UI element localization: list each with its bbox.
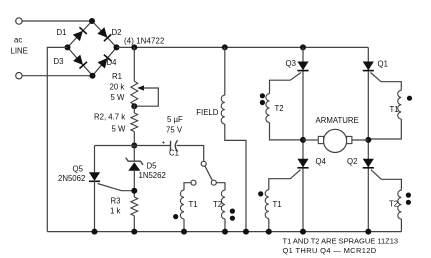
label R2 (94, 113, 126, 134)
switch common terminal (201, 161, 206, 166)
switch throw right (211, 180, 216, 185)
SCR Q3 (297, 62, 308, 71)
phasing dot T1 secondary Q4 (258, 191, 263, 196)
wire: bottom AC line to bridge bottom node (22, 75, 92, 77)
svg-text:D2: D2 (112, 28, 122, 37)
node: bridge bottom (90, 73, 96, 79)
node: bridge left (65, 44, 71, 50)
svg-text:5 W: 5 W (111, 93, 126, 102)
wire: Q4 gate (269, 170, 301, 190)
svg-text:R1: R1 (112, 72, 122, 81)
svg-text:1N5262: 1N5262 (139, 171, 166, 180)
capacitor C1 5uF 75V (162, 140, 178, 152)
wire: R3 to bus (133, 216, 135, 232)
phasing dots T2 secondary Q2 (406, 193, 411, 205)
svg-text:(4) 1N4722: (4) 1N4722 (124, 37, 165, 46)
svg-text:Q1: Q1 (378, 60, 388, 69)
wire: switch left throw to T1 primary (184, 183, 191, 190)
wire: R2 to node (133, 132, 135, 146)
wire: Q2 gate (371, 170, 401, 191)
diode D3 (73, 54, 87, 68)
svg-text:T2: T2 (389, 200, 398, 209)
wire: bottom negative bus (47, 231, 401, 233)
wire: R1 to R2 (133, 105, 135, 114)
wire: bus to R1 (133, 47, 135, 81)
diode D4 (97, 55, 111, 69)
label T2 secondary Q3 (275, 104, 284, 113)
terminal: AC line bottom (16, 73, 22, 79)
wire: Q5 cathode to bus (94, 181, 96, 232)
junction: armature left (300, 137, 306, 143)
transformer T2 primary winding (221, 190, 225, 219)
junction: bottom bus R3 (131, 229, 137, 235)
SCR Q2 (363, 159, 374, 168)
resistor R1 20k pot (131, 81, 138, 104)
field winding (221, 95, 225, 124)
wire: T1 secondary Q1 to cathode node (368, 119, 401, 139)
svg-text:Q1 THRU Q4 — MCR12D: Q1 THRU Q4 — MCR12D (283, 246, 377, 255)
wire: T2 secondary Q2 to bus (400, 219, 402, 232)
label T2 primary (213, 200, 222, 209)
switch blade (205, 166, 212, 180)
wire: T2 secondary Q3 to cathode node (270, 123, 304, 140)
wire: top positive bus (117, 46, 369, 48)
wire: T2 primary to bus (224, 219, 226, 232)
svg-text:20 k: 20 k (110, 83, 125, 92)
wire: bridge diamond (68, 21, 117, 76)
wire: Q1 gate (371, 73, 402, 91)
svg-text:2N5062: 2N5062 (58, 174, 85, 183)
note: SCR types (283, 246, 377, 255)
pot wiper arrow R1 (136, 85, 158, 106)
svg-text:D4: D4 (107, 58, 118, 67)
label D4 (107, 58, 118, 67)
node: bridge top (89, 18, 95, 24)
junction: field branch (222, 44, 228, 50)
junction: bottom bus T1 primary (181, 229, 187, 235)
svg-text:LINE: LINE (11, 47, 28, 56)
wire: switch right throw to T2 primary (217, 183, 225, 190)
label T2 secondary Q2 (389, 200, 398, 209)
svg-text:D1: D1 (57, 28, 67, 37)
label R3 (110, 197, 121, 216)
phasing dots T2 secondary Q3 (260, 93, 265, 105)
transformer T1 primary winding (180, 190, 184, 219)
diode D1 (73, 27, 87, 41)
phasing dot T1 primary (173, 214, 178, 219)
svg-text:D3: D3 (54, 57, 64, 66)
junction: Q5 gate / D5 / R3 (131, 188, 137, 194)
wire: C1 to switch common (177, 146, 204, 162)
wire: D5 anode to gate node (133, 171, 135, 197)
label Q3 (286, 59, 296, 68)
label ARMATURE (316, 116, 359, 125)
svg-text:5 W: 5 W (112, 125, 127, 134)
label D1 (57, 28, 67, 37)
svg-text:1 k: 1 k (110, 207, 121, 216)
wire: bridge left node down to bottom bus (47, 47, 67, 231)
junction: R1/R2/wiper (131, 103, 137, 109)
label R1 (110, 72, 126, 102)
svg-text:75 V: 75 V (166, 126, 183, 135)
resistor R3 1k (131, 197, 138, 216)
transformer T2 secondary (Q2) winding (398, 190, 402, 219)
transformer T1 secondary (Q1) winding (398, 90, 402, 119)
svg-text:C1: C1 (169, 149, 179, 158)
label D3 (54, 57, 64, 66)
switch throw left (191, 180, 196, 185)
svg-text:Q3: Q3 (286, 59, 296, 68)
zener diode D5 1N5262 (126, 158, 143, 171)
label Q4 (316, 157, 327, 166)
label (4) 1N4722 (124, 37, 165, 46)
wire: node to D5 cathode (133, 146, 135, 162)
svg-text:Q4: Q4 (316, 157, 327, 166)
svg-text:D5: D5 (147, 162, 158, 171)
svg-text:R3: R3 (111, 197, 121, 206)
transformer T1 secondary (Q4) winding (265, 190, 269, 219)
SCR Q5 2N5062 (89, 172, 100, 181)
label T1 primary (189, 200, 198, 209)
wire: T1 primary to bus (183, 219, 185, 232)
SCR Q1 (363, 62, 374, 71)
svg-text:T1: T1 (390, 105, 399, 114)
wire: armature right lead (352, 139, 368, 141)
wire: top AC line to bridge top node (22, 20, 92, 22)
phasing dot T1 secondary Q1 (407, 96, 412, 101)
label Q2 (347, 157, 357, 166)
note: transformers (283, 236, 399, 245)
svg-text:T1: T1 (273, 200, 282, 209)
wire: armature left lead (303, 139, 318, 141)
wire: Q5 anode (94, 146, 96, 173)
junction: bottom bus Q4 cathode (300, 229, 306, 235)
resistor R2 4.7k (131, 113, 138, 132)
junction: bottom bus Q5 cathode (92, 229, 98, 235)
svg-text:Q5: Q5 (73, 165, 84, 174)
motor armature (318, 129, 352, 152)
wire: node to Q5 anode (95, 145, 135, 147)
wire: right SCR rail (367, 47, 369, 231)
wire: T1 secondary Q4 to bus (268, 219, 270, 232)
junction: R1 branch (131, 44, 137, 50)
wire: Q5 gate (98, 184, 135, 191)
svg-text:5 µF: 5 µF (167, 115, 183, 124)
transformer T2 secondary (Q3) winding (266, 94, 270, 123)
diode D2 (97, 27, 111, 41)
label FIELD (196, 108, 218, 117)
terminal: AC line top (16, 18, 22, 24)
node: bridge right (114, 44, 120, 50)
svg-text:R2, 4.7 k: R2, 4.7 k (94, 113, 125, 122)
label ac LINE (11, 36, 28, 56)
label T1 secondary Q1 (390, 105, 399, 114)
svg-text:+: + (162, 140, 166, 147)
label C1 values (166, 115, 183, 158)
phasing dots T2 primary (230, 209, 235, 221)
wire: bus to field (224, 47, 226, 95)
svg-text:T1: T1 (189, 200, 198, 209)
node: R2/C1/D5/Q5 (131, 143, 137, 149)
junction: bottom bus T1 sec Q4 (266, 229, 272, 235)
svg-text:FIELD: FIELD (196, 108, 218, 117)
junction: armature right (365, 137, 371, 143)
label T1 secondary Q4 (273, 200, 282, 209)
junction: bottom bus T2 primary (222, 229, 228, 235)
label D5 (139, 162, 166, 181)
wire: field to bottom bus (225, 124, 246, 232)
svg-text:ARMATURE: ARMATURE (316, 116, 359, 125)
wire: left SCR rail (302, 47, 304, 231)
svg-text:T2: T2 (213, 200, 222, 209)
svg-text:T2: T2 (275, 104, 284, 113)
junction: bottom bus field (243, 229, 249, 235)
svg-text:ac: ac (14, 36, 22, 45)
svg-text:T1 AND T2 ARE SPRAGUE 11Z13: T1 AND T2 ARE SPRAGUE 11Z13 (283, 236, 399, 245)
label Q5 (58, 165, 85, 184)
wire: node to C1 (134, 145, 170, 147)
junction: Q3 rail (300, 44, 306, 50)
SCR Q4 (297, 159, 308, 168)
wire: Q3 gate (270, 73, 302, 94)
label D2 (112, 28, 122, 37)
svg-text:Q2: Q2 (347, 157, 357, 166)
junction: bottom bus Q2 cathode (365, 229, 371, 235)
label Q1 (378, 60, 388, 69)
